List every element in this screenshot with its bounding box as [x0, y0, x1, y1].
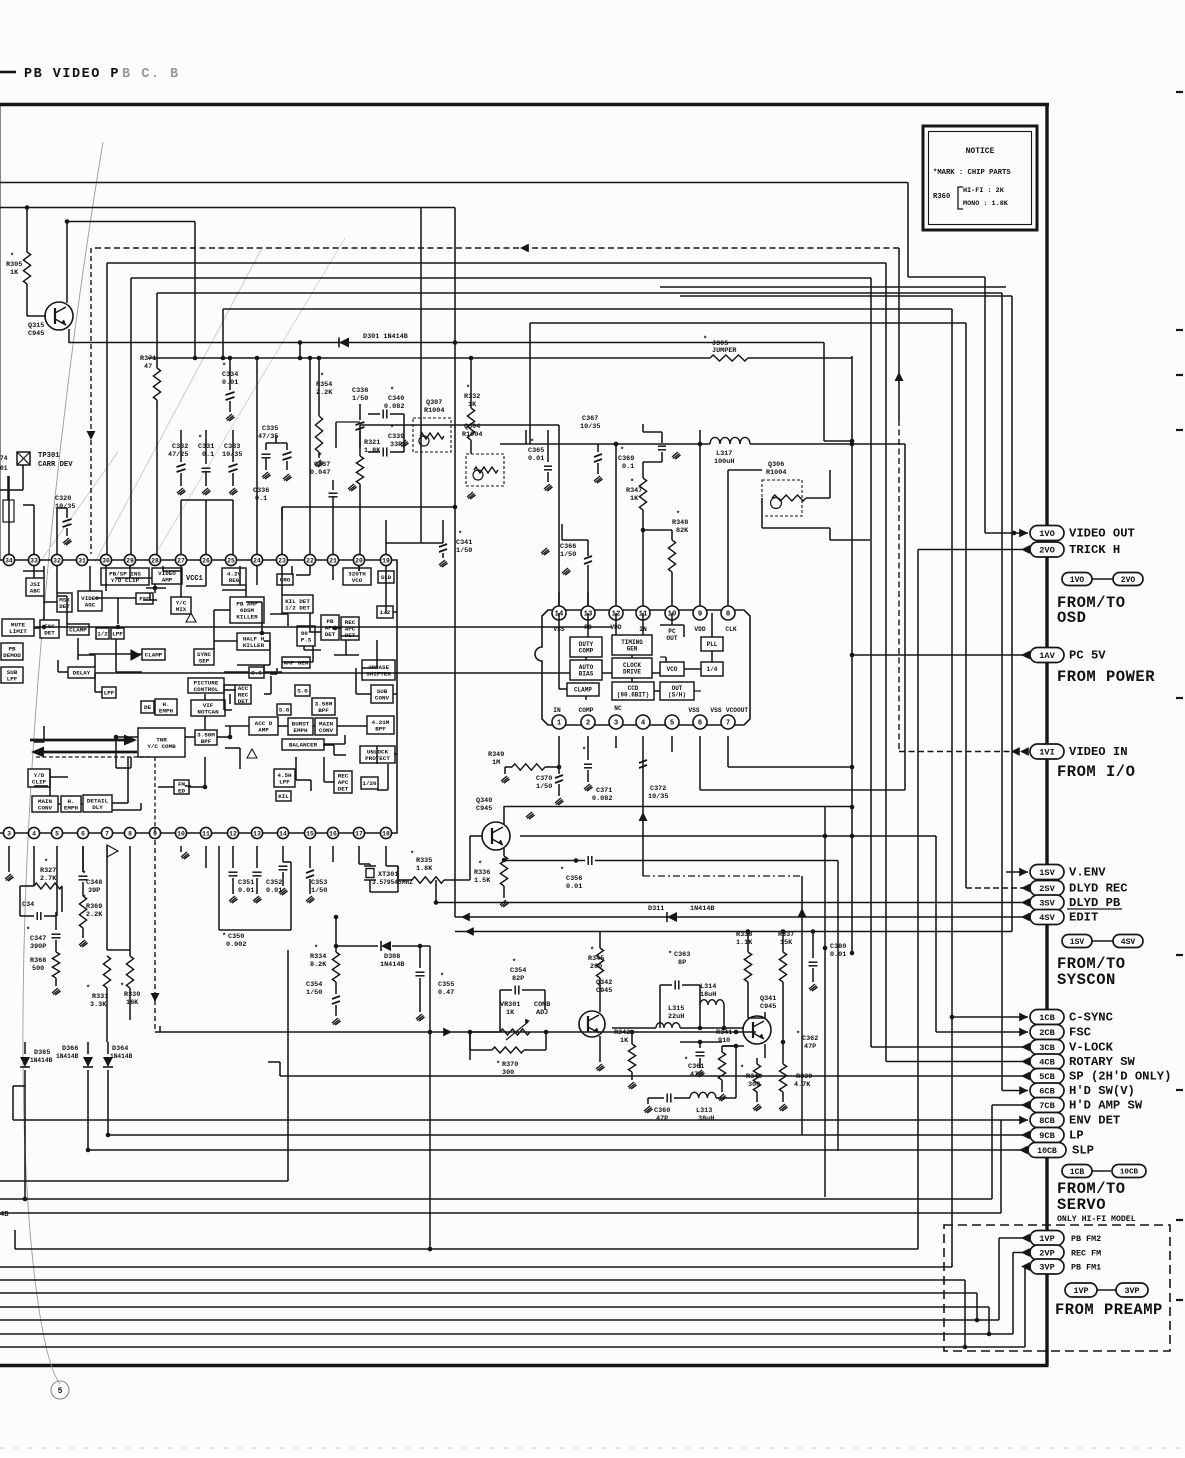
wire CCD bottom: [558, 736, 560, 767]
svg-text:L314: L314: [700, 983, 716, 991]
svg-text:OSD: OSD: [1057, 609, 1086, 627]
wire dashed vert x91 to pin31: [90, 248, 92, 554]
svg-text:AMP: AMP: [258, 726, 269, 733]
svg-text:SLP: SLP: [1072, 1144, 1094, 1158]
capacitor C341b stub: [525, 430, 527, 444]
wire Q341 emitter: [764, 1044, 766, 1058]
IC301 inner wiring density: [43, 566, 45, 578]
svg-text:*: *: [314, 945, 318, 953]
svg-text:L313: L313: [696, 1107, 712, 1115]
svg-text:*: *: [222, 933, 226, 941]
svg-text:VIDEO IN: VIDEO IN: [1069, 745, 1128, 759]
wire vert x223: [222, 309, 224, 358]
svg-text:1/2 DET: 1/2 DET: [285, 604, 310, 611]
IC301 pin 32: [51, 554, 62, 565]
svg-text:28: 28: [151, 557, 159, 564]
svg-text:C362: C362: [802, 1035, 818, 1043]
svg-text:5: 5: [55, 830, 59, 837]
svg-text:Q304: Q304: [464, 423, 480, 431]
IC301 block DELAY: [68, 667, 95, 678]
svg-text:C338: C338: [352, 387, 368, 395]
svg-text:15: 15: [306, 830, 314, 837]
svg-text:C336: C336: [253, 487, 269, 495]
svg-text:1K: 1K: [506, 1009, 515, 1017]
svg-text:*: *: [198, 435, 202, 443]
bus y1347 to 3VP: [0, 1346, 1025, 1348]
svg-text:100uH: 100uH: [714, 458, 734, 466]
svg-text:1/50: 1/50: [352, 395, 368, 403]
CCD block CLOCK DRIVE: [612, 658, 652, 678]
svg-text:0.01: 0.01: [566, 883, 582, 891]
CCD block 1/4: [701, 662, 723, 676]
svg-text:DLYD PB: DLYD PB: [1069, 896, 1121, 910]
IC301 block 4.2V REG: [222, 568, 246, 585]
IC301 block JSI ABC: [26, 578, 44, 596]
IC301 block S.G: [249, 667, 264, 678]
wire pin8 corner: [727, 470, 729, 606]
svg-text:BPF: BPF: [318, 707, 329, 714]
svg-text:0.047: 0.047: [310, 469, 330, 477]
svg-text:C333: C333: [224, 443, 240, 451]
svg-text:*: *: [26, 927, 30, 935]
IC301 pin 22: [304, 554, 315, 565]
svg-text:*: *: [458, 531, 462, 539]
svg-text:R368: R368: [30, 957, 46, 965]
svg-text:1VO: 1VO: [1039, 529, 1054, 539]
IC301 pin 9: [149, 827, 160, 838]
svg-text:5: 5: [58, 1387, 63, 1396]
IC301 block FSC: [136, 593, 153, 604]
svg-text:VCO: VCO: [667, 666, 678, 673]
svg-text:47: 47: [144, 363, 152, 371]
IC301 pin 12: [227, 827, 238, 838]
svg-text:74: 74: [0, 455, 8, 462]
svg-text:R331: R331: [92, 993, 108, 1001]
IC301 pin 30: [100, 554, 111, 565]
svg-text:Q340: Q340: [476, 797, 492, 805]
svg-text:D308: D308: [384, 953, 400, 961]
wire pin7 down: [106, 846, 108, 950]
svg-text:10/35: 10/35: [222, 451, 242, 459]
svg-text:REC FM: REC FM: [1071, 1249, 1101, 1259]
wire net y444 L317: [500, 443, 710, 445]
CCD pin 8: [721, 606, 735, 620]
dash-dot net y876: [643, 875, 802, 877]
wire C350 bracket: [218, 846, 220, 930]
connector 2SV: [1021, 884, 1030, 893]
page number circle 5: [51, 1381, 69, 1399]
svg-text:2SV: 2SV: [1039, 884, 1055, 894]
svg-text:CONV: CONV: [375, 694, 390, 701]
svg-text:2VO: 2VO: [1121, 576, 1136, 585]
svg-text:FROM POWER: FROM POWER: [1057, 668, 1155, 686]
svg-text:L315: L315: [668, 1005, 684, 1013]
svg-text:C337: C337: [314, 461, 330, 469]
wire vert x886 to 4CB: [885, 263, 887, 1062]
IC301 block VIDEO AGC: [78, 591, 102, 611]
svg-text:C335: C335: [262, 425, 278, 433]
IC301 block DE: [141, 701, 154, 713]
connector 1VI: [899, 751, 1030, 753]
svg-text:C365: C365: [528, 447, 544, 455]
IC301 pin 26: [200, 554, 211, 565]
svg-text:10: 10: [177, 830, 185, 837]
svg-text:47P: 47P: [804, 1043, 816, 1051]
IC301 inner wiring: [105, 566, 107, 591]
wire vert x1002 to 6CB: [1001, 293, 1003, 1091]
wire riser 3VP: [1024, 1267, 1026, 1348]
IC301 body: [0, 560, 397, 833]
CCD pin 4: [636, 715, 650, 729]
small triangles: [186, 613, 196, 622]
svg-text:8P: 8P: [678, 959, 686, 967]
wire vert x195: [194, 222, 196, 359]
connector 4SV: [1021, 913, 1030, 922]
svg-text:*: *: [318, 453, 322, 461]
svg-text:2CB: 2CB: [1039, 1028, 1054, 1038]
svg-text:D365: D365: [34, 1049, 50, 1057]
IC301 block H. EMPH: [61, 796, 81, 812]
border right / connector trunk: [1045, 103, 1048, 1366]
svg-text:0.01: 0.01: [830, 951, 846, 959]
svg-text:3VP: 3VP: [1039, 1263, 1054, 1273]
svg-text:1N414B: 1N414B: [380, 961, 404, 969]
svg-text:18uH: 18uH: [700, 991, 716, 999]
IC301 block 1/20: [361, 777, 378, 789]
svg-text:AGC: AGC: [85, 601, 96, 608]
svg-text:EMPH: EMPH: [64, 804, 79, 811]
CCD block VCO: [660, 662, 684, 676]
svg-text:VSS: VSS: [688, 707, 699, 714]
svg-text:3: 3: [7, 830, 11, 837]
bus y1267: [0, 1266, 952, 1268]
IC301 pin 19: [380, 554, 391, 565]
legend 1CB-10CB: [1062, 1165, 1092, 1178]
IC301 pin 13: [251, 827, 262, 838]
svg-text:S.G: S.G: [279, 707, 290, 714]
wire dashed PB net y248: [95, 247, 899, 249]
svg-text:(90.6BIT): (90.6BIT): [617, 691, 649, 698]
connector 6CB: [1019, 1086, 1028, 1095]
svg-text:FSC: FSC: [139, 596, 150, 603]
wire pin23 branch: [281, 507, 283, 520]
svg-text:8CB: 8CB: [1039, 1116, 1054, 1126]
svg-text:VCC1: VCC1: [186, 575, 203, 583]
svg-text:H'D SW(V): H'D SW(V): [1069, 1084, 1135, 1098]
border top: [0, 103, 1049, 106]
wire net y182: [0, 182, 908, 184]
IC301 block BURST EMPH: [288, 718, 313, 735]
connector 8CB: [1019, 1116, 1028, 1125]
svg-text:MIX: MIX: [176, 606, 187, 613]
svg-text:ABC: ABC: [30, 587, 41, 594]
IC301 block H. EMPH: [155, 699, 177, 715]
svg-text:D311: D311: [648, 905, 664, 913]
svg-text:47/25: 47/25: [168, 451, 188, 459]
IC301 block ACC D AMP: [249, 717, 278, 735]
svg-text:7CB: 7CB: [1039, 1101, 1054, 1111]
svg-text:PC 5V: PC 5V: [1069, 649, 1106, 663]
svg-text:5CB: 5CB: [1039, 1072, 1054, 1082]
connector 3CB: [1021, 1043, 1030, 1052]
IC301 block HALF H KILLER: [237, 633, 270, 650]
CCD pin 11: [636, 606, 650, 620]
IC301 block 320TH VCO: [343, 568, 371, 585]
connector 7CB: [1021, 1101, 1030, 1110]
svg-text:R1004: R1004: [424, 407, 444, 415]
wire vert x952 to 1CB: [951, 309, 953, 1017]
IC301 pin 7: [101, 827, 112, 838]
svg-text:Q306: Q306: [768, 461, 784, 469]
svg-text:2VO: 2VO: [1039, 546, 1054, 556]
IC301 block BALANCER: [282, 739, 324, 750]
svg-text:C380: C380: [830, 943, 846, 951]
wire vert x131 to pin29: [130, 278, 132, 554]
svg-text:DEMOD: DEMOD: [3, 652, 21, 659]
svg-text:VCOOUT: VCOOUT: [726, 707, 749, 714]
wire 5CB left vertical: [279, 1062, 281, 1076]
svg-text:18: 18: [382, 830, 390, 837]
svg-text:17: 17: [355, 830, 363, 837]
svg-text:12: 12: [229, 830, 237, 837]
wire Q315 collector: [66, 222, 68, 304]
svg-text:LPF: LPF: [112, 631, 123, 638]
wire pin9 up: [699, 430, 701, 606]
svg-text:34: 34: [5, 557, 13, 564]
svg-text:1/50: 1/50: [560, 551, 576, 559]
svg-text:FROM PREAMP: FROM PREAMP: [1055, 1301, 1163, 1319]
IC301 block MAIN CONV: [32, 796, 58, 812]
svg-text:Q307: Q307: [426, 399, 442, 407]
wire net y836 to 2CB riser: [520, 835, 936, 837]
connector 5CB: [1021, 1072, 1030, 1081]
legend 1VP-3VP: [1065, 1283, 1097, 1297]
diode D311 on 4SV net: [667, 912, 677, 922]
bus y1249: [15, 1248, 918, 1250]
svg-text:*: *: [390, 425, 394, 433]
svg-text:V.ENV: V.ENV: [1069, 866, 1106, 880]
svg-text:DET: DET: [44, 629, 55, 636]
CCD block PLL: [701, 637, 723, 651]
svg-text:VIDEO OUT: VIDEO OUT: [1069, 527, 1135, 541]
svg-text:COMP: COMP: [579, 647, 594, 654]
wire vert x825: [824, 807, 826, 1198]
wire vert x430 long: [429, 946, 431, 1249]
svg-text:1N414B: 1N414B: [110, 1053, 133, 1060]
svg-text:300: 300: [502, 1069, 514, 1077]
IC301 block PB AMP 6DSM KILLER: [230, 597, 264, 623]
IC301 block MUTE LIMIT: [2, 619, 34, 636]
svg-text:390P: 390P: [30, 943, 46, 951]
svg-text:C332: C332: [172, 443, 188, 451]
svg-text:VR301: VR301: [500, 1001, 520, 1009]
svg-text:R342: R342: [614, 1029, 630, 1037]
svg-text:*: *: [120, 983, 124, 991]
CCD block DUTY COMP: [570, 637, 602, 657]
IC301 pin 28: [149, 554, 160, 565]
scan artifact arc: [23, 142, 103, 1384]
IC301 block CLAMP: [142, 649, 165, 660]
svg-text:8.2K: 8.2K: [310, 961, 327, 969]
svg-text:MONO : 1.8K: MONO : 1.8K: [963, 200, 1009, 208]
svg-text:BPF: BPF: [375, 725, 386, 732]
connector 4CB: [1021, 1057, 1030, 1066]
svg-text:C347: C347: [30, 935, 46, 943]
wire vert x871 to 3CB: [870, 278, 872, 1047]
connector 2VO: [917, 550, 919, 1250]
wire vert x989: [988, 1307, 990, 1334]
svg-text:D366: D366: [62, 1045, 78, 1053]
IC301 block S.G: [295, 685, 310, 696]
svg-text:CLK: CLK: [725, 626, 736, 633]
CCD pin 13: [581, 606, 595, 620]
svg-text:01: 01: [0, 465, 8, 472]
svg-text:JUMPER: JUMPER: [712, 347, 737, 355]
IC301 pin 3: [3, 827, 14, 838]
svg-text:*: *: [82, 871, 86, 879]
IC301 block SYNC SEP: [194, 649, 214, 665]
svg-text:ROTARY SW: ROTARY SW: [1069, 1055, 1136, 1069]
svg-text:1CB: 1CB: [1039, 1013, 1054, 1023]
svg-text:C340: C340: [388, 395, 404, 403]
svg-text:R1004: R1004: [462, 431, 482, 439]
svg-text:R305: R305: [6, 261, 22, 269]
IC301 pin 33: [28, 554, 39, 565]
svg-text:3SV: 3SV: [1039, 899, 1055, 909]
svg-text:(S/H): (S/H): [668, 691, 686, 698]
amp triangle near pin7: [107, 845, 118, 857]
svg-text:DET: DET: [59, 603, 70, 610]
svg-text:C360: C360: [654, 1107, 670, 1115]
svg-text:1/50: 1/50: [456, 547, 472, 555]
wire riser 2VP: [1012, 1253, 1014, 1335]
svg-text:C945: C945: [28, 330, 44, 338]
bus y1150 to 10CB: [86, 1148, 91, 1153]
connector 9CB: [1021, 1131, 1030, 1140]
CCD pin 10: [665, 606, 679, 620]
svg-text:3CB: 3CB: [1039, 1043, 1054, 1053]
CCD pin 5: [665, 715, 679, 729]
svg-text:1K: 1K: [468, 401, 477, 409]
svg-text:23: 23: [278, 557, 286, 564]
svg-text:PB FM2: PB FM2: [1071, 1234, 1101, 1244]
wire pin5-7 bottom: [671, 736, 673, 752]
svg-text:D301 1N414B: D301 1N414B: [363, 333, 408, 341]
bus y1120 to 8CB: [13, 1119, 1001, 1121]
svg-text:CLAMP: CLAMP: [574, 687, 592, 694]
svg-text:Q341: Q341: [760, 995, 776, 1003]
svg-text:P.S: P.S: [301, 636, 312, 643]
svg-text:EMPH: EMPH: [293, 727, 308, 734]
svg-text:DLYD REC: DLYD REC: [1069, 882, 1128, 896]
diode D308: [336, 945, 378, 947]
svg-text:4SV: 4SV: [1121, 938, 1136, 947]
svg-text:LPF: LPF: [104, 690, 115, 697]
svg-text:*: *: [582, 747, 586, 755]
bus y1135 to 9CB: [106, 1133, 111, 1138]
IC301 block PB/SP INS Y/D CLIP: [101, 568, 149, 585]
wire left edge verticals: [0, 104, 1, 560]
border bottom: [0, 1364, 1049, 1367]
svg-text:29: 29: [126, 557, 134, 564]
svg-text:30: 30: [102, 557, 110, 564]
svg-text:1VP: 1VP: [1073, 1286, 1088, 1296]
svg-text:19: 19: [382, 557, 390, 564]
svg-text:PB FM1: PB FM1: [1071, 1263, 1101, 1273]
svg-text:NOTCAN: NOTCAN: [197, 708, 219, 715]
svg-text:LPF: LPF: [279, 778, 290, 785]
svg-text:13: 13: [253, 830, 261, 837]
IC301 block KIL DET 1/2 DET: [282, 595, 313, 613]
IC301 block 1/2: [96, 628, 109, 639]
svg-text:DET: DET: [338, 786, 349, 793]
svg-text:KIL: KIL: [278, 793, 289, 800]
svg-text:*: *: [740, 1065, 744, 1073]
svg-text:33: 33: [30, 557, 38, 564]
bus y1199: [0, 1198, 992, 1200]
svg-text:25: 25: [227, 557, 235, 564]
IC301 block PB APC DET: [321, 615, 339, 640]
connector 2VP: [1021, 1248, 1030, 1257]
CCD pin 6: [693, 715, 707, 729]
svg-text:C355: C355: [438, 981, 454, 989]
svg-text:0.002: 0.002: [226, 941, 246, 949]
transistor Q341: [743, 1016, 771, 1044]
wire pin19 feed: [385, 543, 387, 554]
svg-text:1N414B: 1N414B: [56, 1053, 79, 1060]
svg-text:R327: R327: [40, 867, 56, 875]
svg-text:2: 2: [586, 720, 590, 728]
wire pin33 feed: [33, 505, 35, 554]
svg-text:R370: R370: [502, 1061, 518, 1069]
wire vert x965: [964, 1280, 966, 1347]
CCD pin 2: [581, 715, 595, 729]
svg-text:1/20: 1/20: [362, 780, 377, 787]
svg-text:R341: R341: [716, 1029, 732, 1037]
svg-text:R336: R336: [474, 869, 490, 877]
svg-text:8: 8: [128, 830, 132, 837]
svg-text:L317: L317: [716, 450, 732, 458]
svg-text:C353: C353: [311, 879, 327, 887]
wire Q306 loop: [761, 498, 763, 528]
wire vert x966 to 2SV: [965, 323, 967, 888]
svg-text:C370: C370: [536, 775, 552, 783]
capacitor C336: [286, 443, 288, 450]
IC301 block 3.58M BPF: [195, 730, 217, 745]
connector 1VP: [1021, 1234, 1030, 1243]
svg-text:26: 26: [202, 557, 210, 564]
wire net y860 C356: [504, 860, 585, 862]
IC301 pin 24: [251, 554, 262, 565]
svg-text:BALANCER: BALANCER: [289, 742, 318, 749]
CCD pin 3: [609, 715, 623, 729]
svg-text:32: 32: [53, 557, 61, 564]
IC301 block MAIN CONV: [315, 718, 337, 735]
svg-text:4CB: 4CB: [1039, 1058, 1054, 1068]
transistor Q342: [579, 1011, 605, 1037]
IC301 block 4.21M BPF: [367, 716, 394, 734]
svg-text:SEP: SEP: [199, 657, 210, 664]
wire to Q341 base: [700, 1027, 744, 1029]
svg-text:EMPH: EMPH: [159, 707, 174, 714]
svg-text:C-SYNC: C-SYNC: [1069, 1011, 1113, 1025]
svg-text:1N414B: 1N414B: [30, 1057, 53, 1064]
svg-text:R348: R348: [672, 519, 688, 527]
IC301 block VIF NOTCAN: [191, 700, 225, 716]
wire net y358 with jumper J305: [148, 357, 710, 359]
svg-text:Y/C COMB: Y/C COMB: [147, 743, 176, 750]
IC301 pin 29: [124, 554, 135, 565]
